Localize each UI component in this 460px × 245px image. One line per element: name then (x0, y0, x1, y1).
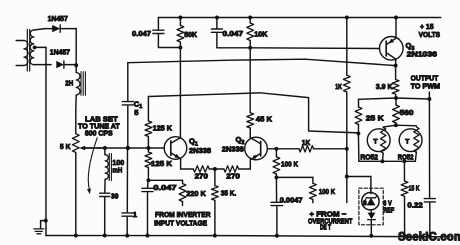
resistor 3.9K (395, 66, 397, 80)
inductor 2H (75, 65, 77, 72)
resistor 100K at Q2 base (275, 149, 277, 157)
wire secondary top lead (34, 29, 52, 30)
resistor 45K (249, 48, 251, 113)
resistor 220K (182, 180, 184, 183)
wire secondary bottom lead (34, 64, 51, 66)
wire +15V top supply rail (158, 17, 440, 19)
transformer core (26, 30, 28, 72)
svg-text:50K: 50K (184, 30, 197, 39)
capacitor 0.047 lower (147, 180, 149, 187)
svg-text:1N457: 1N457 (50, 48, 70, 57)
wire center tap down (45, 47, 47, 235)
svg-text:220 K: 220 K (186, 189, 206, 198)
wire to zener (347, 176, 371, 178)
svg-text:25 K: 25 K (366, 113, 384, 122)
wire bridge bottom (359, 160, 415, 162)
thermistor RO52 left (367, 129, 390, 152)
node pair1 top junctions (178, 16, 182, 20)
capacitor 0.22 (428, 99, 430, 198)
capacitor C1 5 (127, 63, 129, 101)
diode 1N457 top (52, 25, 60, 32)
svg-text:REF: REF (383, 206, 394, 215)
wire node to 220K (148, 179, 182, 181)
wire pair1 bottom (158, 47, 180, 49)
capacitor 0.0047 (275, 177, 277, 201)
transistor Q2 2N338 (245, 137, 268, 160)
svg-text:270: 270 (226, 172, 240, 181)
svg-text:0.0047: 0.0047 (280, 195, 303, 204)
svg-text:T: T (373, 138, 378, 145)
wire ground rail (46, 236, 450, 237)
resistor 10K (249, 18, 251, 24)
wire Q2 emitter (249, 160, 251, 169)
svg-text:8: 8 (363, 200, 367, 207)
resistor 25K (358, 99, 360, 107)
wire pair2 bottom to Q3 base rail (217, 47, 250, 49)
svg-text:DE T: DE T (320, 225, 332, 232)
svg-text:45 K: 45 K (256, 114, 273, 123)
wire output stub (428, 92, 430, 99)
svg-text:125 K: 125 K (153, 124, 173, 133)
wire overcurrent minus stub (346, 177, 348, 203)
svg-text:0.047: 0.047 (132, 29, 151, 38)
resistor 100K overcurrent (312, 177, 314, 183)
potentiometer 5K (75, 110, 77, 134)
diode 1N457 lower (56, 61, 64, 68)
svg-text:2N1036: 2N1036 (407, 50, 437, 59)
svg-text:5 K: 5 K (60, 142, 71, 151)
svg-text:mH: mH (112, 165, 122, 174)
svg-text:2H: 2H (65, 78, 73, 87)
capacitor 1 (126, 148, 128, 212)
svg-text:2N338: 2N338 (189, 146, 211, 155)
resistor 560 (395, 98, 397, 105)
wire Q3 emitter from +15 (395, 18, 397, 39)
resistor 1K horizontal (299, 146, 314, 152)
wire lab-set pointer arc (88, 138, 97, 191)
svg-text:270: 270 (195, 172, 208, 181)
diode below zener (368, 213, 376, 220)
svg-text:1K: 1K (335, 82, 342, 91)
svg-text:TO PWM: TO PWM (411, 82, 440, 91)
capacitor 0.047 (left pair) (157, 18, 159, 30)
svg-text:T: T (405, 138, 410, 145)
svg-text:1K: 1K (302, 138, 311, 147)
transformer primary winding (16, 40, 24, 42)
svg-text:RO52: RO52 (360, 152, 378, 161)
svg-text:SeekIC.com: SeekIC.com (398, 231, 460, 243)
wire Q2 base to 1K (267, 148, 299, 150)
transistor Q3 2N1036 (380, 37, 404, 61)
svg-text:0.047: 0.047 (223, 29, 244, 38)
resistor 35K (214, 169, 216, 186)
wire pot wiper to Q1 base (83, 147, 164, 149)
svg-text:2N338: 2N338 (222, 144, 244, 153)
wire bridge feedback to 125K chain (148, 93, 358, 133)
wire C1 to Q3 collector rail (128, 59, 396, 65)
svg-text:1: 1 (133, 210, 138, 219)
resistor 15K (403, 161, 405, 181)
svg-text:10K: 10K (254, 29, 268, 38)
inductor 100mH (104, 148, 106, 155)
svg-text:1N457: 1N457 (48, 14, 68, 23)
svg-text:VOLTS: VOLTS (419, 30, 440, 39)
svg-text:0.22: 0.22 (407, 201, 422, 210)
transistor Q1 2N338 (164, 137, 187, 160)
capacitor 39 (104, 179, 106, 192)
thermistor RO52 right (399, 129, 422, 152)
ground (44, 219, 48, 223)
wire node A (276, 176, 313, 178)
resistor 125K lower (147, 148, 149, 152)
svg-text:100 K: 100 K (319, 187, 336, 196)
wire Q1 collector feed (179, 48, 181, 138)
svg-text:125 K: 125 K (151, 159, 173, 168)
resistor 270 right (224, 166, 239, 172)
wire output rail (359, 98, 430, 99)
resistor 50K (179, 18, 181, 26)
svg-text:39: 39 (111, 191, 118, 200)
capacitor 0.047 (second pair) (216, 18, 218, 29)
svg-text:3.9 K: 3.9 K (376, 82, 393, 91)
resistor 125K upper (147, 97, 149, 122)
svg-text:15 K: 15 K (409, 184, 420, 193)
svg-text:560: 560 (400, 108, 414, 117)
resistor 270 left (193, 166, 209, 172)
svg-text:800 CPS: 800 CPS (85, 128, 113, 137)
svg-text:100 K: 100 K (281, 159, 299, 168)
zener diode 6V REF (359, 188, 383, 225)
node center tap (33, 45, 37, 49)
wire Q1 emitter (180, 159, 182, 169)
svg-text:INPUT VOLTAGE: INPUT VOLTAGE (154, 218, 207, 227)
transformer secondary winding (30, 30, 34, 65)
svg-text:35 K.: 35 K. (221, 188, 237, 197)
svg-text:0.047: 0.047 (153, 183, 176, 192)
resistor 1K vertical (346, 18, 348, 76)
